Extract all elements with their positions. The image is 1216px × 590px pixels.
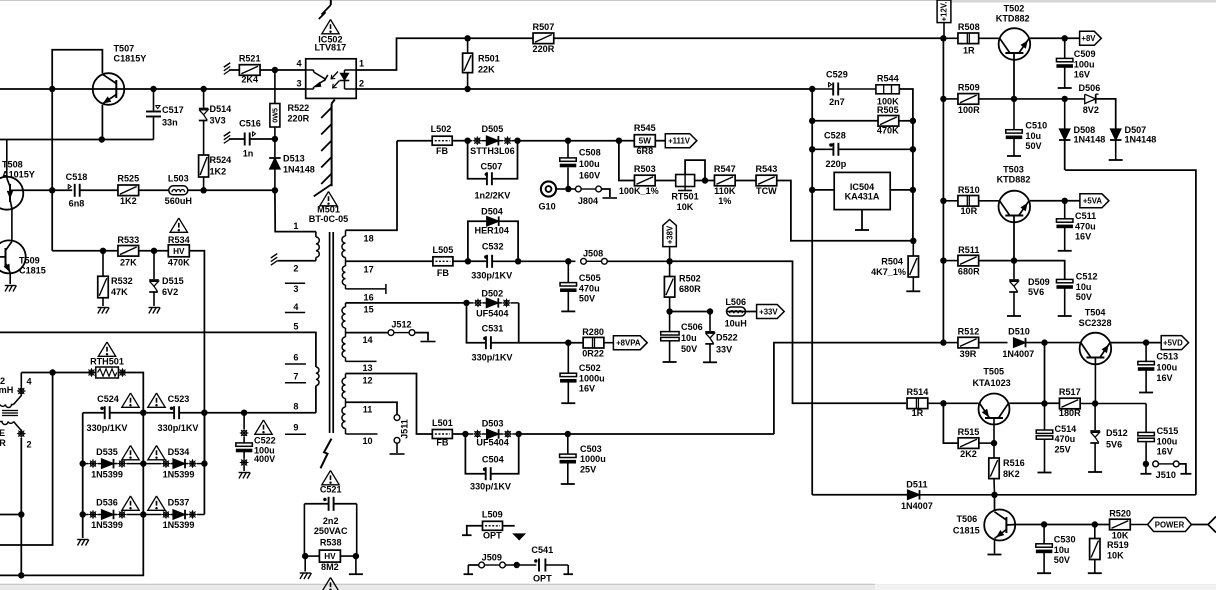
choke winding bottom <box>0 422 21 434</box>
wire pin14 <box>346 332 389 334</box>
isolation barrier above IC502 <box>319 0 331 19</box>
label C529 <box>826 70 848 108</box>
svg-text:J509: J509 <box>482 553 502 563</box>
wire R521 left <box>229 69 239 71</box>
svg-text:330p/1KV: 330p/1KV <box>470 482 511 492</box>
flag +8VPA <box>613 336 647 350</box>
secondary winding 15-14 <box>342 303 346 333</box>
svg-text:C509: C509 <box>1074 49 1096 59</box>
svg-text:5W: 5W <box>639 137 652 146</box>
label C509 <box>1074 49 1096 80</box>
ground D515 <box>149 308 161 314</box>
label pin7 <box>293 371 298 381</box>
svg-text:L503: L503 <box>168 174 189 184</box>
svg-text:160V: 160V <box>579 171 600 181</box>
node R545 left <box>616 138 622 144</box>
svg-text:16V: 16V <box>1074 70 1090 80</box>
label R547 <box>714 164 736 206</box>
label C511 <box>1075 211 1096 242</box>
node R512 left <box>940 339 946 345</box>
svg-text:R544: R544 <box>877 74 900 84</box>
diode D503 <box>465 429 518 439</box>
node D503 right <box>516 431 522 437</box>
svg-text:D514: D514 <box>210 104 233 114</box>
svg-text:C515: C515 <box>1157 426 1179 436</box>
svg-text:C541: C541 <box>531 545 553 555</box>
node R508 left <box>940 35 946 41</box>
wire +38V to R514 <box>670 261 907 403</box>
label T502 <box>996 4 1030 24</box>
wire pin12 <box>346 374 433 435</box>
svg-text:+5VD: +5VD <box>1163 338 1183 347</box>
svg-text:KTA1023: KTA1023 <box>972 378 1010 388</box>
svg-text:2: 2 <box>359 79 364 89</box>
capacitor C532 <box>484 255 568 268</box>
flag +33V <box>757 305 785 319</box>
label D508 <box>1074 125 1106 145</box>
resistor R502 <box>664 261 674 311</box>
node D510 out <box>1041 339 1047 345</box>
svg-text:R516: R516 <box>1003 458 1025 468</box>
transistor T504 <box>1080 333 1112 404</box>
svg-text:5: 5 <box>293 322 298 332</box>
svg-text:mH: mH <box>0 385 13 395</box>
svg-text:D534: D534 <box>168 447 191 457</box>
label R509 <box>958 83 980 115</box>
node D512 top <box>1092 400 1098 406</box>
label R543 <box>756 164 778 196</box>
label J512 <box>391 320 411 330</box>
svg-text:C1815: C1815 <box>19 266 46 276</box>
node T507 base junction <box>49 86 55 92</box>
svg-text:+33V: +33V <box>759 307 778 316</box>
wire pin5 <box>0 332 316 367</box>
wire pin15 <box>346 302 467 304</box>
label choke pin2 <box>27 440 32 450</box>
wire C516 left <box>229 138 245 140</box>
svg-text:R511: R511 <box>958 245 979 255</box>
svg-text:C510: C510 <box>1025 121 1047 131</box>
jumper J511 <box>390 415 405 454</box>
svg-text:1K2: 1K2 <box>120 196 137 206</box>
node R547 left <box>702 177 708 183</box>
diode D508 <box>1059 99 1071 170</box>
node R516 top <box>991 440 997 446</box>
label C523 <box>158 394 199 433</box>
capacitor C509 <box>1056 38 1073 88</box>
node R504 top <box>910 238 916 244</box>
node R519 top <box>1092 521 1098 527</box>
svg-text:13: 13 <box>362 363 372 373</box>
svg-text:UF5404: UF5404 <box>476 309 509 319</box>
svg-text:100u: 100u <box>1156 362 1177 372</box>
capacitor C506 <box>661 312 679 363</box>
wire 25V rail up <box>774 343 944 434</box>
label D522 <box>716 333 738 355</box>
wire C516 right <box>250 138 275 140</box>
svg-text:D513: D513 <box>283 154 305 164</box>
wire IC504 right <box>890 189 913 191</box>
node C508 top <box>565 138 571 144</box>
transistor T503 <box>999 191 1031 223</box>
svg-text:J512: J512 <box>391 320 411 330</box>
capacitor C521 <box>304 497 356 556</box>
label T506 <box>953 514 980 536</box>
svg-text:D537: D537 <box>168 498 190 508</box>
svg-text:D522: D522 <box>716 333 738 343</box>
page bottom scrollbar band <box>0 584 1216 590</box>
node RTH row <box>49 369 55 375</box>
wire R545 down R503 <box>619 141 634 181</box>
wire x52 down <box>0 373 53 546</box>
choke pin4 star <box>17 387 26 396</box>
wire T507 right to C517 <box>124 88 305 90</box>
wire R515 branch <box>943 403 958 443</box>
node D502 left <box>463 300 469 306</box>
label L506 <box>725 297 747 328</box>
label pin12 <box>362 376 372 386</box>
pin4 stub <box>285 312 305 314</box>
resistor R503 <box>634 175 655 186</box>
zener D522 <box>703 312 717 363</box>
wire T506 base row <box>1015 524 1110 526</box>
wire C524 row <box>83 412 244 414</box>
label L509 <box>482 510 503 541</box>
svg-text:100K_1%: 100K_1% <box>619 186 659 196</box>
ground T509 <box>5 286 17 292</box>
svg-text:L501: L501 <box>432 418 453 428</box>
svg-text:10K: 10K <box>1112 531 1129 541</box>
zener D506 <box>1085 94 1116 129</box>
node C513 top <box>1143 339 1149 345</box>
resistor R545 <box>619 135 665 147</box>
label T508 <box>2 160 35 180</box>
warning D537 <box>148 496 165 510</box>
svg-text:R512: R512 <box>958 327 980 337</box>
capacitor C531 loop <box>467 303 519 349</box>
resistor R522 <box>270 70 280 139</box>
svg-text:C508: C508 <box>579 148 601 158</box>
label D514 <box>210 104 233 126</box>
svg-text:50V: 50V <box>681 344 697 354</box>
svg-text:OPT: OPT <box>533 574 552 584</box>
capacitor C524 <box>100 406 109 419</box>
svg-text:100u: 100u <box>1157 436 1178 446</box>
capacitor C541 <box>534 559 573 575</box>
svg-text:8M2: 8M2 <box>321 562 339 572</box>
resistor R544 <box>876 85 899 94</box>
svg-text:16V: 16V <box>1156 373 1172 383</box>
jumper J804 <box>568 186 617 198</box>
svg-text:22K: 22K <box>478 65 495 75</box>
wire AC row y372 <box>21 372 91 374</box>
label D536 <box>91 498 123 531</box>
wire L509 right <box>503 526 525 540</box>
svg-text:T506: T506 <box>957 514 978 524</box>
svg-text:D506: D506 <box>1079 83 1101 93</box>
transistor T506 <box>984 510 1015 541</box>
node C528 left <box>809 146 815 152</box>
svg-text:J510: J510 <box>1156 470 1176 480</box>
ground R538 left <box>300 556 312 579</box>
capacitor C508 <box>560 141 577 189</box>
transistor T502 <box>999 28 1031 60</box>
svg-text:6V2: 6V2 <box>162 287 178 297</box>
label C510 <box>1025 121 1047 152</box>
warning D535 <box>122 446 139 460</box>
label D504 <box>475 207 510 236</box>
svg-text:8K2: 8K2 <box>1003 469 1020 479</box>
svg-text:G10: G10 <box>538 202 555 212</box>
node D535 D534 <box>140 460 146 466</box>
capacitor C505 <box>560 261 577 311</box>
svg-text:C528: C528 <box>824 131 846 141</box>
svg-text:+8V: +8V <box>1081 34 1096 43</box>
capacitor C504 loop <box>465 434 518 480</box>
label L501 <box>432 418 453 447</box>
svg-text:1N4007: 1N4007 <box>1002 349 1034 359</box>
svg-text:1R: 1R <box>963 46 975 56</box>
choke core <box>2 411 18 416</box>
svg-text:2n2: 2n2 <box>323 516 339 526</box>
svg-text:470K: 470K <box>877 126 899 136</box>
label M501 <box>309 205 348 225</box>
svg-text:R503: R503 <box>634 164 656 174</box>
label R516 <box>1003 458 1025 479</box>
svg-text:D503: D503 <box>482 418 504 428</box>
label C507 <box>474 162 510 201</box>
label D505 <box>470 124 514 156</box>
warning IC502 <box>322 20 339 34</box>
node neutral join <box>18 572 24 578</box>
zener D514 <box>199 89 209 155</box>
label R510 <box>958 185 980 216</box>
label R544 <box>877 74 900 107</box>
node C516 right <box>272 136 278 142</box>
resistor R516 <box>989 443 999 495</box>
capacitor C507 loop <box>468 141 518 186</box>
node C518 row x52 <box>49 187 55 193</box>
node R510 left <box>940 198 946 204</box>
svg-text:220p: 220p <box>826 159 847 169</box>
page top border <box>0 0 1216 3</box>
svg-text:KTD882: KTD882 <box>996 14 1030 24</box>
label D510 <box>1002 327 1034 359</box>
node D522 top <box>707 308 713 314</box>
svg-text:180R: 180R <box>1059 408 1081 418</box>
svg-text:D505: D505 <box>482 124 504 134</box>
label C531 <box>472 324 513 363</box>
resistor R520 <box>1110 519 1148 530</box>
svg-text:R534: R534 <box>168 235 191 245</box>
svg-text:25V: 25V <box>1055 444 1071 454</box>
label C532 <box>471 242 512 281</box>
svg-text:1N4007: 1N4007 <box>901 501 933 511</box>
svg-text:10R: 10R <box>960 206 977 216</box>
pin13 stub <box>346 360 377 362</box>
svg-text:10: 10 <box>362 436 372 446</box>
label D537 <box>163 498 195 531</box>
node T502 base row <box>1011 96 1017 102</box>
svg-text:E: E <box>0 428 5 438</box>
label pin6 <box>293 353 298 363</box>
wire D510 down <box>1044 343 1046 404</box>
svg-text:10K: 10K <box>677 202 694 212</box>
svg-text:C517: C517 <box>162 105 184 115</box>
svg-text:R525: R525 <box>117 174 139 184</box>
svg-text:50V: 50V <box>1054 555 1070 565</box>
svg-text:L502: L502 <box>431 124 452 134</box>
svg-text:10uH: 10uH <box>725 318 747 328</box>
thermistor RTH501 <box>87 367 127 378</box>
label T505 <box>972 367 1010 389</box>
svg-text:C506: C506 <box>681 322 703 332</box>
wire T507 emitter down <box>101 105 103 140</box>
svg-text:110K: 110K <box>714 186 736 196</box>
resistor R547 <box>714 175 735 186</box>
secondary winding 14-13 <box>342 333 345 362</box>
shunt-regulator IC504 <box>834 172 890 209</box>
label R502 <box>679 274 701 295</box>
pin6 stub <box>285 363 306 365</box>
flag +38V <box>663 220 677 262</box>
connector G10 <box>541 181 565 196</box>
node R505 left <box>809 118 815 124</box>
flag +5VD <box>1161 336 1188 350</box>
wire pin11 <box>346 402 398 414</box>
isolation bolt below core <box>321 439 332 469</box>
node C517 top <box>150 86 156 92</box>
choke pin2 star <box>17 429 26 438</box>
node bridge right top <box>201 410 207 416</box>
svg-text:FB: FB <box>436 437 449 447</box>
capacitor C515 <box>1138 404 1155 464</box>
resistor R514 <box>907 398 978 409</box>
label R501 <box>478 54 500 75</box>
label pin13 <box>362 363 372 373</box>
capacitor C511 <box>1056 201 1073 251</box>
node D503 left <box>462 431 468 437</box>
svg-text:R501: R501 <box>478 54 500 64</box>
svg-text:3V3: 3V3 <box>210 116 226 126</box>
svg-text:2: 2 <box>293 264 298 274</box>
primary winding 1 <box>316 232 319 261</box>
pin7 stub <box>285 382 306 384</box>
wire main rail <box>942 38 944 342</box>
wire left y514 <box>0 514 21 516</box>
label pin5 <box>293 322 298 332</box>
warning bottom <box>322 578 339 590</box>
node L503 R524 <box>200 187 206 193</box>
wire T506 emitter <box>988 539 1002 555</box>
label D506 <box>1079 83 1101 115</box>
ground chassis C516 <box>224 132 230 144</box>
wire R547 R543 <box>735 180 756 182</box>
diode D511 <box>908 490 1196 500</box>
jumper J508 <box>568 258 669 264</box>
label C504 <box>470 454 511 491</box>
resistor R505 <box>878 116 899 127</box>
svg-text:2K4: 2K4 <box>241 75 259 85</box>
label J509 <box>482 553 502 563</box>
resistor R509 <box>943 94 1084 105</box>
svg-text:HER104: HER104 <box>475 226 510 236</box>
capacitor C512 <box>1056 279 1073 316</box>
node C508 bottom <box>565 186 571 192</box>
svg-text:C507: C507 <box>481 162 503 172</box>
label R524 <box>210 155 233 177</box>
svg-text:C512: C512 <box>1076 272 1098 282</box>
label D513 <box>283 154 315 175</box>
resistor R517 <box>1059 398 1146 409</box>
label D535 <box>91 447 123 480</box>
node R505 right <box>910 118 916 124</box>
svg-text:11: 11 <box>363 404 373 414</box>
svg-text:BT-0C-05: BT-0C-05 <box>309 214 348 224</box>
svg-text:M501: M501 <box>317 205 340 215</box>
label R507 <box>533 22 555 54</box>
label C506 <box>681 322 703 354</box>
node D513 bottom <box>272 187 278 193</box>
label R522 <box>288 103 310 124</box>
resistor R524 <box>199 155 209 190</box>
svg-text:14: 14 <box>362 335 373 345</box>
svg-text:16: 16 <box>364 293 374 303</box>
label C503 <box>580 444 606 475</box>
wire pin8 <box>315 386 317 413</box>
svg-text:R520: R520 <box>1109 509 1131 519</box>
label R503 <box>619 164 659 196</box>
capacitor C502 <box>560 343 577 404</box>
warning R534 <box>170 218 187 232</box>
wire R533 row left <box>52 250 118 252</box>
op-isolator IC502 box <box>306 59 357 99</box>
label R532 <box>111 276 133 297</box>
label D512 <box>1106 428 1128 450</box>
label L505 <box>433 245 454 278</box>
diode D537 <box>143 510 204 520</box>
label C502 <box>579 363 605 394</box>
svg-text:+5VA: +5VA <box>1083 197 1103 206</box>
ground chassis pin2 <box>271 254 277 266</box>
svg-text:C518: C518 <box>66 172 88 182</box>
svg-text:18: 18 <box>364 234 374 244</box>
svg-text:T507: T507 <box>114 44 135 54</box>
node J510 left <box>1143 461 1149 467</box>
svg-text:C532: C532 <box>482 242 504 252</box>
warning D536 <box>122 496 139 510</box>
zener D512 <box>1088 404 1102 473</box>
svg-text:C531: C531 <box>482 324 504 334</box>
label T509 <box>19 256 46 276</box>
svg-text:0R22: 0R22 <box>582 348 604 358</box>
svg-text:HV: HV <box>324 552 336 561</box>
wire RT501 R547 <box>695 180 715 182</box>
svg-text:R515: R515 <box>958 427 980 437</box>
label pin4 <box>293 302 299 312</box>
ground bridge left <box>77 540 89 546</box>
capacitor C517 <box>146 89 161 140</box>
label pin15 <box>364 305 374 315</box>
svg-text:8: 8 <box>293 402 298 412</box>
IC502 photodiode <box>340 70 357 89</box>
label R533 <box>117 235 139 267</box>
label C521 <box>320 485 342 495</box>
svg-text:D510: D510 <box>1008 327 1030 337</box>
label R534 <box>168 235 191 267</box>
capacitor C523 <box>170 406 179 419</box>
svg-text:J508: J508 <box>583 249 603 259</box>
